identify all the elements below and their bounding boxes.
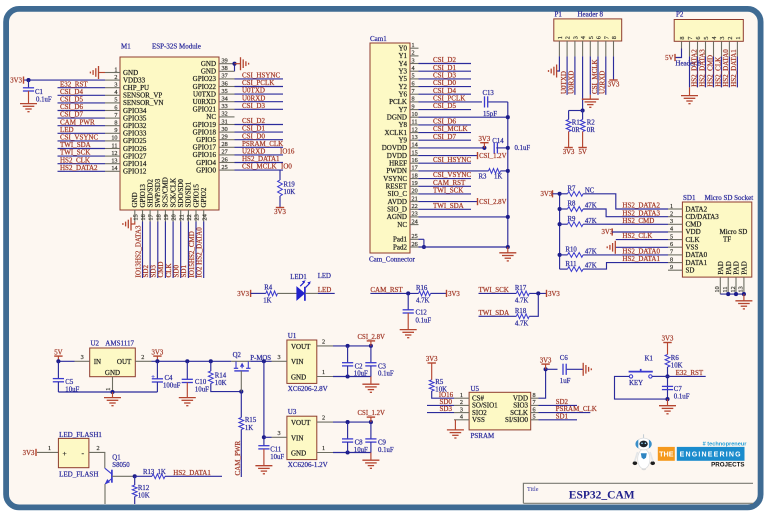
M1 pin 37 GPIO23 bbox=[219, 78, 235, 80]
svg-text:1: 1 bbox=[735, 37, 742, 40]
svg-text:U0RXD: U0RXD bbox=[568, 71, 576, 94]
Cam1 pin 23 AGND bbox=[410, 216, 419, 218]
svg-text:C1: C1 bbox=[35, 89, 43, 96]
svg-text:HS2_CMD: HS2_CMD bbox=[622, 217, 654, 225]
svg-text:R15: R15 bbox=[245, 417, 257, 424]
wire net SD3 from M1 pin 18 bbox=[157, 222, 159, 279]
U2 pin 1 GND bbox=[112, 377, 114, 392]
M1 pin 36 GPIO22 bbox=[219, 86, 235, 88]
wire net TWI_SDA to R18 bbox=[479, 315, 517, 317]
M1 pin 19 SCS/CMD bbox=[164, 210, 166, 222]
power port CSI_2.8V bbox=[370, 341, 372, 346]
svg-text:U3: U3 bbox=[288, 408, 297, 416]
M1 pin 11 GPIO26 bbox=[105, 148, 120, 150]
wire R1 to 3V3 bbox=[568, 132, 570, 148]
wire LED_FLASH pin2 to Q1 collector bbox=[104, 452, 106, 468]
svg-text:38: 38 bbox=[222, 65, 228, 72]
svg-text:LED_FLASH1: LED_FLASH1 bbox=[59, 431, 102, 439]
svg-text:14: 14 bbox=[412, 142, 418, 149]
svg-text:HS2_DATA3: HS2_DATA3 bbox=[698, 49, 706, 87]
M1 pin 18 SWP/SD3 bbox=[157, 210, 159, 222]
wire 3V3 power rail to Q2 bbox=[152, 360, 232, 362]
wire net U0RXD from M1 pin 34 bbox=[235, 101, 284, 103]
svg-text:18: 18 bbox=[155, 214, 162, 220]
svg-text:Title: Title bbox=[527, 486, 539, 493]
SD1 pin 6 VSS bbox=[668, 246, 682, 248]
svg-text:27: 27 bbox=[222, 149, 228, 156]
node junction C1/VDD33 bbox=[26, 78, 30, 82]
svg-text:22: 22 bbox=[412, 203, 418, 210]
wire Cam1 pin14 DOVDD to C14 bbox=[419, 147, 485, 149]
socket SD1 body bbox=[682, 202, 751, 277]
wire Cam1 pin10 DGND to rail bbox=[419, 116, 508, 118]
svg-text:E32_RST: E32_RST bbox=[676, 369, 704, 377]
M1 pin 30 GPIO18 bbox=[219, 131, 235, 133]
svg-text:CSI_D5: CSI_D5 bbox=[433, 102, 456, 110]
svg-text:3V3: 3V3 bbox=[602, 229, 614, 236]
wire net TWI_SDA from Cam1 pin 22 bbox=[419, 208, 472, 210]
svg-text:10K: 10K bbox=[215, 380, 227, 387]
capacitor C6 1uF bbox=[546, 368, 558, 370]
wire U3 GND to caps bbox=[333, 452, 371, 454]
svg-text:12: 12 bbox=[111, 150, 117, 157]
wire net U0TXD from M1 pin 35 bbox=[235, 93, 284, 95]
wire R18 up to R17 junction bbox=[529, 293, 538, 316]
ground at SD1 pin6 VSS bbox=[615, 246, 668, 248]
svg-text:1: 1 bbox=[114, 66, 117, 73]
resistor R7 NC bbox=[560, 193, 568, 195]
svg-text:+: + bbox=[63, 449, 67, 458]
U5 pin 4 VSS bbox=[454, 419, 469, 421]
svg-text:13: 13 bbox=[412, 134, 418, 141]
ground under U2 bbox=[112, 392, 114, 398]
wire P1 pin8 to 3V3 bbox=[613, 56, 615, 80]
svg-text:10uF: 10uF bbox=[354, 447, 368, 454]
svg-text:Micro SD Socket: Micro SD Socket bbox=[705, 194, 754, 202]
svg-text:6: 6 bbox=[670, 241, 673, 248]
M1 pin 29 GPIO5 bbox=[219, 139, 235, 141]
wire net CSI_D0 from M1 pin 29 bbox=[235, 139, 284, 141]
svg-text:4: 4 bbox=[711, 37, 718, 40]
svg-text:3: 3 bbox=[573, 36, 580, 39]
svg-text:4: 4 bbox=[670, 226, 673, 233]
svg-text:HS2_DATA1: HS2_DATA1 bbox=[730, 49, 738, 87]
wire net SD3 to U5 pin3 bbox=[427, 412, 454, 414]
svg-text:5: 5 bbox=[588, 36, 595, 39]
M1 pin 28 GPIO17 bbox=[219, 146, 235, 148]
svg-text:LED_FLASH: LED_FLASH bbox=[59, 470, 98, 478]
Cam1 pin 9 Y7 bbox=[410, 109, 419, 111]
svg-text:M1: M1 bbox=[121, 43, 131, 51]
svg-text:1uF: 1uF bbox=[560, 378, 571, 385]
svg-text:7: 7 bbox=[114, 112, 117, 119]
M1 pin 38 GND bbox=[219, 70, 235, 72]
svg-text:CSI_1.2V: CSI_1.2V bbox=[479, 153, 506, 160]
svg-text:6: 6 bbox=[596, 36, 603, 39]
svg-text:Header 8: Header 8 bbox=[578, 11, 604, 19]
wire net CSI_D2 from Cam1 pin 3 bbox=[419, 63, 472, 65]
Cam1 pin 13 Y9 bbox=[410, 139, 419, 141]
svg-text:VOUT: VOUT bbox=[291, 419, 311, 427]
M1 pin 13 GPIO14 bbox=[105, 163, 120, 165]
svg-text:10: 10 bbox=[412, 111, 418, 118]
svg-text:PROJECTS: PROJECTS bbox=[711, 462, 744, 469]
svg-text:1K: 1K bbox=[263, 298, 271, 305]
power port 3V3 above C6 bbox=[545, 364, 547, 369]
svg-text:11: 11 bbox=[412, 119, 418, 126]
junction R14 bbox=[209, 359, 213, 363]
capacitor C3 0.1uF bbox=[370, 346, 372, 363]
ground under C3 bbox=[370, 377, 372, 385]
wire net PSRAM_CLK from U5 pin6 bbox=[539, 412, 591, 414]
P2 pin 2 bbox=[728, 41, 730, 56]
svg-text:S8050: S8050 bbox=[112, 462, 130, 469]
power port 3V3 at DOVDD bbox=[483, 143, 485, 148]
wire R8 to SD1 pin2 HS2_DATA3 bbox=[583, 209, 668, 217]
svg-text:P1: P1 bbox=[555, 11, 563, 19]
svg-text:THE: THE bbox=[659, 450, 674, 459]
svg-text:34: 34 bbox=[222, 96, 228, 103]
svg-text:1: 1 bbox=[48, 445, 51, 452]
svg-text:7: 7 bbox=[603, 36, 610, 39]
junction C4 bbox=[155, 359, 159, 363]
svg-text:CAM_RST: CAM_RST bbox=[370, 286, 403, 294]
svg-text:PSRAM: PSRAM bbox=[471, 432, 496, 440]
svg-text:13: 13 bbox=[111, 158, 117, 165]
M1 pin 14 GPIO12 bbox=[105, 170, 120, 172]
wire M1 pin25 to R19 bbox=[279, 170, 281, 180]
junction Q2 gate node bbox=[239, 390, 243, 394]
wire R17 to 3V3 bbox=[529, 292, 546, 294]
svg-text:7: 7 bbox=[670, 249, 673, 256]
svg-text:U1: U1 bbox=[288, 332, 297, 340]
svg-text:10uF: 10uF bbox=[354, 371, 368, 378]
U1 pin 1 GND bbox=[317, 376, 333, 378]
M1 pin 17 SHD/SD2 bbox=[149, 210, 151, 222]
svg-text:ENGINEERING: ENGINEERING bbox=[680, 452, 742, 459]
wire net CSI_D4 from Cam1 pin 7 bbox=[419, 93, 472, 95]
power port 3V3 at LED_FLASH pin1 bbox=[35, 449, 37, 456]
header P1 body bbox=[554, 19, 622, 41]
wire net SD0 to U5 pin2 bbox=[427, 404, 454, 406]
logo THE box bbox=[658, 447, 675, 461]
SD1 pin 1 DATA2 bbox=[668, 208, 682, 210]
regulator U1 body bbox=[287, 340, 317, 383]
header P2 body bbox=[674, 20, 743, 42]
power port 3V3 at U2 OUT bbox=[156, 356, 158, 361]
svg-text:SD3: SD3 bbox=[440, 405, 453, 413]
svg-text:3V3: 3V3 bbox=[563, 149, 575, 156]
junction K1 ground node bbox=[665, 397, 669, 401]
svg-text:24: 24 bbox=[201, 214, 208, 220]
Cam1 pin 3 Y4 bbox=[410, 63, 419, 65]
Cam1 pin 1 Y0 bbox=[410, 47, 419, 49]
svg-text:3: 3 bbox=[278, 354, 281, 361]
svg-text:2: 2 bbox=[727, 37, 734, 40]
junction M1 pin39 bbox=[232, 62, 236, 66]
power port 3V3 under R1 bbox=[564, 147, 572, 149]
svg-text:5: 5 bbox=[670, 233, 673, 240]
svg-text:VIN: VIN bbox=[291, 434, 303, 442]
svg-text:5: 5 bbox=[114, 97, 117, 104]
svg-text:0.1uF: 0.1uF bbox=[515, 145, 531, 152]
capacitor C9 0.1uF bbox=[370, 422, 372, 439]
wire net CSI_D6 from Cam1 pin 11 bbox=[419, 124, 472, 126]
svg-text:OUT: OUT bbox=[117, 358, 132, 366]
svg-text:TWI_SCK: TWI_SCK bbox=[479, 286, 509, 294]
SD1 pin 9 SD bbox=[668, 269, 682, 271]
svg-text:R19: R19 bbox=[284, 181, 296, 188]
wire VIN node down to U3 bbox=[263, 361, 265, 445]
svg-text:9: 9 bbox=[670, 264, 673, 271]
svg-text:P2: P2 bbox=[676, 11, 684, 19]
resistor R15 1K bbox=[240, 392, 242, 418]
svg-text:2: 2 bbox=[412, 50, 415, 57]
svg-text:R2: R2 bbox=[587, 120, 596, 127]
M1 pin 22 SDI/SD1 bbox=[187, 210, 189, 222]
svg-text:C6: C6 bbox=[560, 355, 569, 362]
P2 pin 4 bbox=[713, 41, 715, 56]
wire net CAM_PWR bbox=[240, 430, 242, 478]
svg-text:0.1uF: 0.1uF bbox=[36, 97, 52, 104]
capacitor C4 100uF polarized bbox=[156, 361, 158, 379]
svg-text:3V3: 3V3 bbox=[540, 357, 552, 364]
power port 5V bbox=[57, 356, 59, 361]
svg-text:28: 28 bbox=[222, 141, 228, 148]
svg-text:U2: U2 bbox=[91, 340, 100, 348]
svg-text:IO16: IO16 bbox=[280, 148, 295, 156]
wire 5V to U2 IN bbox=[58, 360, 74, 362]
svg-text:CAM_PWR: CAM_PWR bbox=[234, 441, 242, 476]
svg-text:3V3: 3V3 bbox=[152, 349, 164, 356]
M1 pin 7 GPIO35 bbox=[105, 117, 120, 119]
wire net E32_RST to M1 pin 3 bbox=[58, 87, 106, 89]
wire net CSI_MCLK from M1 pin 25 bbox=[235, 169, 284, 171]
SD1 pin 5 CLK bbox=[668, 239, 682, 241]
power port 3V3 before R4 bbox=[250, 290, 252, 297]
ground under C10 bbox=[179, 397, 196, 399]
capacitor C1 0.1uF bbox=[28, 80, 30, 88]
wire Cam1 pad26 to rail bbox=[419, 246, 508, 248]
diode LED1 bbox=[297, 287, 305, 300]
svg-text:KEY: KEY bbox=[629, 380, 643, 387]
power rail 3V3 wire to M1 pin 2 VDD33 bbox=[24, 79, 106, 81]
SD1 pin 3 CMD bbox=[668, 223, 682, 225]
P1 pin 2 bbox=[566, 41, 568, 56]
M1 pin 25 GPIO0 bbox=[219, 169, 235, 171]
M1 pin 26 GPIO4 bbox=[219, 162, 235, 164]
svg-text:NC: NC bbox=[397, 221, 407, 229]
svg-text:R5: R5 bbox=[435, 379, 444, 386]
svg-text:2: 2 bbox=[460, 399, 463, 406]
ground at P1 pin5 bbox=[582, 98, 599, 100]
svg-text:U2RXD: U2RXD bbox=[599, 71, 607, 94]
svg-text:ESP32_CAM: ESP32_CAM bbox=[569, 490, 635, 502]
wire net U0RXD from P1 pin3 bbox=[574, 56, 576, 94]
power port 3V3 above R6 bbox=[667, 343, 669, 355]
svg-text:R7: R7 bbox=[568, 186, 577, 193]
U5 pin 7 SIO3 bbox=[531, 404, 539, 406]
svg-text:SD: SD bbox=[686, 267, 695, 275]
svg-text:3V3: 3V3 bbox=[608, 82, 620, 89]
svg-text:CSI_2.8V: CSI_2.8V bbox=[358, 334, 385, 341]
svg-text:XC6206-1.2V: XC6206-1.2V bbox=[288, 461, 328, 469]
svg-text:2: 2 bbox=[322, 415, 325, 422]
SD1 pin 4 VDD bbox=[668, 231, 682, 233]
svg-text:SI/SIO0: SI/SIO0 bbox=[505, 416, 528, 424]
svg-text:24: 24 bbox=[412, 218, 418, 225]
wire K1 left loop to ground node bbox=[615, 376, 668, 399]
svg-text:3V3: 3V3 bbox=[548, 291, 560, 298]
svg-text:23: 23 bbox=[412, 211, 418, 218]
svg-text:1: 1 bbox=[670, 203, 673, 210]
resistor R14 10K bbox=[210, 361, 212, 371]
svg-text:GND: GND bbox=[105, 369, 120, 377]
P1 pin 8 bbox=[613, 41, 615, 56]
svg-text:HS2_CLK: HS2_CLK bbox=[714, 57, 722, 87]
wire P1 pin4 to R1/R2 bbox=[582, 56, 584, 110]
P2 pin 7 bbox=[689, 41, 691, 56]
ground under C11 bbox=[255, 465, 272, 467]
svg-text:1K: 1K bbox=[245, 425, 253, 432]
wire net HS2_CLK from P2 pin 3 bbox=[721, 56, 723, 87]
svg-text:C9: C9 bbox=[378, 440, 387, 447]
svg-text:20: 20 bbox=[171, 214, 178, 220]
U2 pin 2 OUT bbox=[135, 360, 151, 362]
wire net CSI_D2 from M1 pin 31 bbox=[235, 124, 284, 126]
svg-text:9: 9 bbox=[412, 103, 415, 110]
M1 pin 27 GPIO16 bbox=[219, 154, 235, 156]
wire net CSI_PCLK from M1 pin 36 bbox=[235, 86, 284, 88]
svg-text:15: 15 bbox=[412, 149, 418, 156]
svg-text:CSI_MCLK: CSI_MCLK bbox=[591, 59, 599, 94]
svg-text:10K: 10K bbox=[138, 493, 150, 500]
svg-text:3V3: 3V3 bbox=[237, 291, 249, 298]
ground under C12 bbox=[400, 329, 417, 331]
svg-text:36: 36 bbox=[222, 80, 228, 87]
wire net CSI_D1 from M1 pin 30 bbox=[235, 131, 284, 133]
svg-text:19: 19 bbox=[412, 180, 418, 187]
svg-text:8: 8 bbox=[611, 36, 618, 39]
svg-text:3V3: 3V3 bbox=[479, 136, 491, 143]
resistor R10 47K bbox=[560, 254, 568, 256]
U3 pin 2 VOUT bbox=[317, 421, 333, 423]
M1 pin 5 SENSOR_VN bbox=[105, 102, 120, 104]
transistor Q2 P-MOS bbox=[231, 360, 250, 362]
svg-text:R1: R1 bbox=[572, 120, 580, 127]
resistor R5 10K bbox=[431, 364, 433, 380]
M1 pin 32 NC bbox=[219, 116, 235, 118]
svg-text:VOUT: VOUT bbox=[291, 343, 311, 351]
svg-text:4.7K: 4.7K bbox=[515, 321, 528, 328]
svg-text:Cam1: Cam1 bbox=[370, 35, 387, 43]
svg-text:0R: 0R bbox=[587, 127, 595, 134]
svg-text:R18: R18 bbox=[515, 308, 527, 315]
P1 pin 6 bbox=[597, 41, 599, 56]
wire net HS2_DATA1 from P2 pin 1 bbox=[736, 56, 738, 87]
power port 3V3 at left edge bbox=[23, 77, 25, 84]
Cam1 pin 8 PCLK bbox=[410, 101, 419, 103]
svg-text:GPIO2: GPIO2 bbox=[200, 187, 208, 207]
svg-text:LED: LED bbox=[318, 286, 332, 294]
power port 5V at P2 pin8 bbox=[674, 54, 676, 61]
svg-text:5V: 5V bbox=[54, 349, 62, 356]
junction E32_RST bbox=[665, 374, 669, 378]
svg-text:HS2_CLK: HS2_CLK bbox=[622, 232, 652, 240]
svg-text:33: 33 bbox=[222, 103, 228, 110]
wire net HS2_CLK to M1 pin 13 bbox=[58, 163, 106, 165]
P2 pin 1 bbox=[736, 41, 738, 56]
U3 pin 3 VIN bbox=[272, 436, 287, 438]
P1 pin 7 bbox=[605, 41, 607, 56]
M1 pin 9 GPIO33 bbox=[105, 132, 120, 134]
wire P1 pin5 to ground bbox=[589, 56, 591, 94]
svg-text:C7: C7 bbox=[674, 386, 683, 393]
wire net CSI_PCLK from Cam1 pin 8 bbox=[419, 101, 483, 103]
wire net SD1 from M1 pin 22 bbox=[187, 222, 189, 279]
junction C6 node bbox=[544, 367, 548, 371]
capacitor C2 10uF bbox=[347, 346, 349, 363]
svg-text:8: 8 bbox=[533, 392, 536, 399]
ground under C1 bbox=[20, 103, 37, 105]
svg-text:6: 6 bbox=[533, 406, 536, 413]
Cam1 pin 19 RESET bbox=[410, 185, 419, 187]
Cam1 pin 12 XCLK1 bbox=[410, 132, 419, 134]
capacitor C13 15pF bbox=[484, 96, 486, 107]
P1 pin 1 bbox=[558, 41, 560, 56]
power port 3V3 at SD pull-up rail bbox=[552, 190, 554, 197]
svg-text:R3: R3 bbox=[479, 173, 488, 180]
wire net HS2_DATA2 to M1 pin 14 bbox=[58, 170, 106, 172]
Cam1 pin 5 Y5 bbox=[410, 78, 419, 80]
svg-text:C8: C8 bbox=[355, 440, 364, 447]
power port 3V3 at SD1 pin4 VDD bbox=[611, 228, 613, 235]
svg-text:R10: R10 bbox=[566, 247, 578, 254]
psram U5 body bbox=[469, 392, 531, 430]
ground under C9 bbox=[370, 453, 372, 461]
P1 pin 4 bbox=[582, 41, 584, 56]
lamp LED_FLASH1 body bbox=[58, 438, 89, 467]
M1 pin 3 CHP_PU bbox=[105, 87, 120, 89]
svg-text:C13: C13 bbox=[483, 90, 495, 97]
wire net CSI_MCLK from Cam1 pin 12 bbox=[419, 132, 472, 134]
capacitor C5 10uF bbox=[57, 361, 59, 378]
svg-text:HS2_DATA1: HS2_DATA1 bbox=[173, 469, 211, 477]
svg-text:TWI_SCK: TWI_SCK bbox=[433, 187, 463, 195]
M1 pin 16 GPIO13 bbox=[142, 210, 144, 222]
svg-text:5: 5 bbox=[412, 73, 415, 80]
svg-text:IO0: IO0 bbox=[281, 163, 292, 171]
wire R2 to 5V bbox=[582, 132, 584, 148]
svg-text:3: 3 bbox=[460, 406, 463, 413]
svg-text:0.1uF: 0.1uF bbox=[378, 371, 394, 378]
ground at M1 pin 1 bbox=[99, 72, 106, 74]
resistor R11 47K bbox=[560, 268, 568, 270]
wire U3 VOUT to CSI_1.2V bbox=[333, 421, 371, 423]
Cam1 pin 15 DVDD bbox=[410, 155, 419, 157]
Cam1 pin 21 AVDD bbox=[410, 201, 419, 203]
resistor R6 10K bbox=[665, 355, 670, 368]
svg-text:CSI_D3: CSI_D3 bbox=[242, 102, 265, 110]
svg-text:31: 31 bbox=[222, 118, 228, 125]
svg-text:8: 8 bbox=[412, 96, 415, 103]
svg-text:TF: TF bbox=[723, 236, 731, 244]
svg-text:3: 3 bbox=[412, 57, 415, 64]
wire R10 to SD1 pin7 HS2_DATA0 bbox=[583, 254, 668, 256]
wire R13 to net HS2_DATA1 bbox=[165, 475, 222, 477]
wire P2 pin8 to 5V bbox=[675, 49, 682, 58]
svg-text:2: 2 bbox=[141, 354, 144, 361]
